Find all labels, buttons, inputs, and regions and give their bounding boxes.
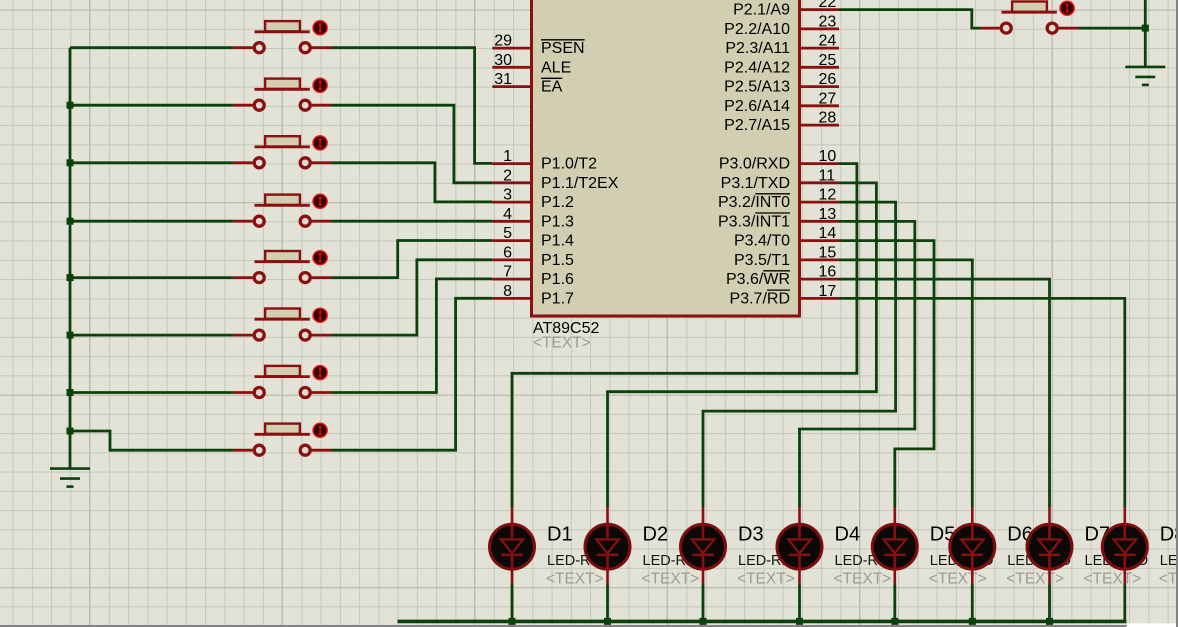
svg-text:14: 14	[819, 225, 837, 242]
svg-text:PSEN: PSEN	[541, 40, 585, 57]
wire pin P3.7 to LED D8	[839, 298, 1125, 507]
svg-text:8: 8	[503, 283, 512, 300]
svg-text:28: 28	[819, 110, 837, 127]
pin 3 (P1.2) stub, number and name	[492, 187, 574, 212]
svg-text:<TEXT>: <TEXT>	[1084, 571, 1142, 588]
LED D6	[950, 507, 995, 585]
svg-text:<TEXT>: <TEXT>	[1159, 571, 1178, 588]
pin 25 (P2.4/A12) stub, number and name	[724, 52, 839, 77]
svg-text:2: 2	[503, 167, 512, 184]
LED D7	[1027, 507, 1072, 585]
sheet bottom-right white margin	[1127, 623, 1176, 627]
junction bus node D4	[796, 618, 803, 625]
pin 15 (P3.5/T1) stub, number and name	[734, 244, 839, 269]
push button SW7	[233, 366, 331, 398]
junction bus node D7	[1046, 618, 1053, 625]
svg-text:P1.6: P1.6	[541, 271, 574, 288]
pin 30 (ALE) stub, number and name	[492, 52, 571, 77]
junction left bus node 7	[67, 389, 74, 396]
svg-text:P1.2: P1.2	[541, 194, 574, 211]
svg-text:ALE: ALE	[541, 59, 571, 76]
wire bus to button SW7	[70, 391, 233, 394]
junction bus node D2	[604, 618, 611, 625]
wire pin P3.6 to LED D7	[839, 279, 1050, 507]
svg-text:16: 16	[819, 264, 837, 281]
svg-text:P1.0/T2: P1.0/T2	[541, 156, 597, 173]
svg-text:P2.4/A12: P2.4/A12	[724, 59, 790, 76]
wire LED D4 cathode to bus	[798, 585, 801, 622]
pin 17 (P3.7/RD) stub, number and name	[730, 283, 839, 308]
microcontroller U1 AT89C52 body	[532, 0, 800, 316]
junction left bus node 2	[67, 102, 74, 109]
pin 5 (P1.4) stub, number and name	[492, 225, 574, 250]
svg-text:LED-RED: LED-RED	[1160, 553, 1178, 569]
svg-text:4: 4	[503, 206, 512, 223]
junction left bus node 6	[67, 332, 74, 339]
wire button SW1 to pin P1.0	[332, 48, 493, 164]
svg-text:10: 10	[819, 148, 837, 165]
LED D1	[490, 507, 535, 585]
wire LED D2 cathode to bus	[606, 585, 609, 622]
push button SW2	[233, 78, 331, 110]
pin 27 (P2.6/A14) stub, number and name	[724, 90, 839, 115]
push button SW5	[233, 251, 331, 283]
pin 29 (PSEN) stub, number and name	[492, 33, 584, 58]
junction left bus node 5	[67, 274, 74, 281]
LED D5	[872, 507, 917, 585]
wire pin P3.0 to LED D1	[512, 164, 857, 507]
LED D8	[1102, 507, 1147, 585]
junction left bus node 3	[67, 159, 74, 166]
svg-text:17: 17	[819, 283, 837, 300]
svg-text:D3: D3	[738, 524, 764, 546]
svg-text:23: 23	[819, 13, 837, 30]
pin 1 (P1.0/T2) stub, number and name	[492, 148, 597, 173]
junction bus node D5	[891, 618, 898, 625]
sheet right edge	[1176, 0, 1178, 627]
svg-text:5: 5	[503, 225, 512, 242]
svg-text:P3.0/RXD: P3.0/RXD	[719, 156, 790, 173]
junction bus node D1	[509, 618, 516, 625]
svg-text:P2.2/A10: P2.2/A10	[724, 21, 790, 38]
LED D4	[777, 507, 822, 585]
svg-text:P1.1/T2EX: P1.1/T2EX	[541, 175, 619, 192]
wire bus jog to button SW8	[70, 431, 233, 450]
push button SW1	[233, 21, 331, 53]
push button SW6	[233, 308, 331, 340]
wire button SW9 to ground net	[1078, 27, 1146, 30]
LED D2	[585, 507, 630, 585]
wire LED D8 cathode to bus	[1123, 585, 1126, 622]
pin 22 (P2.1/A9) stub, number and name	[733, 0, 839, 19]
svg-text:P1.5: P1.5	[541, 252, 574, 269]
svg-text:3: 3	[503, 187, 512, 204]
pin 12 (P3.2/INT0) stub, number and name	[718, 187, 839, 212]
pin 2 (P1.1/T2EX) stub, number and name	[492, 167, 618, 192]
pin 28 (P2.7/A15) stub, number and name	[724, 110, 839, 135]
pin 10 (P3.0/RXD) stub, number and name	[719, 148, 839, 173]
pin 26 (P2.5/A13) stub, number and name	[724, 71, 839, 96]
wire bus to button SW3	[70, 161, 233, 164]
pin 16 (P3.6/WR) stub, number and name	[726, 264, 839, 289]
wire button SW5 to pin P1.4	[332, 241, 493, 278]
pin 8 (P1.7) stub, number and name	[492, 283, 574, 308]
svg-text:P2.6/A14: P2.6/A14	[724, 98, 790, 115]
wire bus to button SW5	[70, 276, 233, 279]
svg-text:26: 26	[819, 71, 837, 88]
svg-text:1: 1	[503, 148, 512, 165]
svg-text:13: 13	[819, 206, 837, 223]
wire pin P3.2 to LED D3	[703, 202, 896, 507]
wire button SW6 to pin P1.5	[332, 260, 493, 335]
svg-text:P1.4: P1.4	[541, 233, 574, 250]
pin 13 (P3.3/INT1) stub, number and name	[718, 206, 839, 231]
push button SW3	[233, 136, 331, 168]
pin 23 (P2.2/A10) stub, number and name	[724, 13, 839, 38]
wire pin P3.5 to LED D6	[839, 260, 972, 507]
svg-text:30: 30	[494, 52, 512, 69]
wire bus to button SW1	[70, 46, 233, 49]
svg-text:D1: D1	[547, 524, 573, 546]
svg-text:P2.1/A9: P2.1/A9	[733, 2, 790, 19]
wire LED D6 cathode to bus	[971, 585, 974, 622]
junction SW9 to ground node	[1142, 25, 1149, 32]
svg-text:D8: D8	[1160, 524, 1178, 546]
svg-text:P2.3/A11: P2.3/A11	[725, 40, 790, 57]
svg-text:P2.5/A13: P2.5/A13	[724, 79, 790, 96]
wire button SW7 to pin P1.6	[332, 279, 493, 393]
svg-text:P2.7/A15: P2.7/A15	[724, 117, 790, 134]
sheet bottom edge	[0, 625, 1127, 627]
pin 14 (P3.4/T0) stub, number and name	[734, 225, 839, 250]
LED D3	[681, 507, 726, 585]
svg-text:D2: D2	[643, 524, 669, 546]
ground top right ground	[1125, 67, 1165, 85]
svg-text:<TEXT>: <TEXT>	[1006, 571, 1064, 588]
svg-text:27: 27	[819, 90, 837, 107]
svg-text:P3.7/RD: P3.7/RD	[730, 290, 790, 307]
svg-text:7: 7	[503, 264, 512, 281]
svg-text:22: 22	[819, 0, 837, 11]
wire pin P3.4 to LED D5	[839, 241, 934, 507]
svg-text:6: 6	[503, 244, 512, 261]
push button SW8	[233, 423, 331, 455]
wire LED D5 cathode to bus	[893, 585, 896, 622]
svg-text:P3.3/INT1: P3.3/INT1	[718, 213, 790, 230]
svg-text:29: 29	[494, 33, 512, 50]
wire bottom common bus	[398, 620, 1127, 624]
wire LED D7 cathode to bus	[1048, 585, 1051, 622]
wire button SW2 to pin P1.1	[332, 105, 493, 183]
wire button SW4 to pin P1.3	[332, 220, 493, 223]
push button SW4	[233, 194, 331, 226]
svg-text:<TEXT>: <TEXT>	[737, 571, 795, 588]
svg-text:P3.6/WR: P3.6/WR	[726, 271, 790, 288]
svg-text:11: 11	[819, 167, 836, 184]
push button SW9	[980, 1, 1078, 33]
svg-text:P3.2/INT0: P3.2/INT0	[718, 194, 790, 211]
wire pin P3.1 to LED D2	[608, 183, 877, 507]
pin 6 (P1.5) stub, number and name	[492, 244, 574, 269]
wire bus to button SW2	[70, 104, 233, 107]
wire button SW8 to pin P1.7	[332, 298, 493, 450]
svg-text:<TEXT>: <TEXT>	[546, 571, 604, 588]
svg-text:D4: D4	[835, 524, 861, 546]
svg-text:P1.3: P1.3	[541, 213, 574, 230]
wire LED D1 cathode to bus	[511, 585, 514, 622]
wire pin P3.3 to LED D4	[800, 221, 915, 507]
junction bus node D6	[969, 618, 976, 625]
wire pin P2.1 to button SW9	[839, 10, 980, 29]
wire bus to button SW6	[70, 334, 233, 337]
ground left button bus ground	[50, 469, 90, 487]
svg-text:15: 15	[819, 244, 837, 261]
wire bus to button SW4	[70, 220, 233, 223]
svg-text:12: 12	[819, 187, 837, 204]
wire ground net vertical	[1144, 0, 1147, 67]
svg-text:<TEXT>: <TEXT>	[929, 571, 987, 588]
wire LED D3 cathode to bus	[702, 585, 705, 622]
junction bus node D3	[700, 618, 707, 625]
pin 7 (P1.6) stub, number and name	[492, 264, 574, 289]
svg-text:<TEXT>: <TEXT>	[834, 571, 892, 588]
svg-text:31: 31	[494, 71, 512, 88]
wire button SW3 to pin P1.2	[332, 163, 493, 202]
svg-text:<TEXT>: <TEXT>	[533, 335, 591, 352]
junction left bus node 8	[67, 428, 74, 435]
svg-text:25: 25	[819, 52, 837, 69]
svg-text:24: 24	[819, 33, 837, 50]
svg-text:EA: EA	[541, 79, 563, 96]
pin 11 (P3.1/TXD) stub, number and name	[721, 167, 839, 192]
svg-text:P3.1/TXD: P3.1/TXD	[721, 175, 790, 192]
pin 24 (P2.3/A11) stub, number and name	[725, 33, 839, 58]
pin 4 (P1.3) stub, number and name	[492, 206, 574, 231]
svg-text:<TEXT>: <TEXT>	[642, 571, 700, 588]
pin 31 (EA) stub, number and name	[492, 71, 562, 96]
svg-text:P1.7: P1.7	[541, 290, 574, 307]
wire left ground bus vertical	[69, 48, 72, 469]
svg-text:P3.4/T0: P3.4/T0	[734, 233, 790, 250]
svg-text:P3.5/T1: P3.5/T1	[734, 252, 790, 269]
junction left bus node 4	[67, 218, 74, 225]
